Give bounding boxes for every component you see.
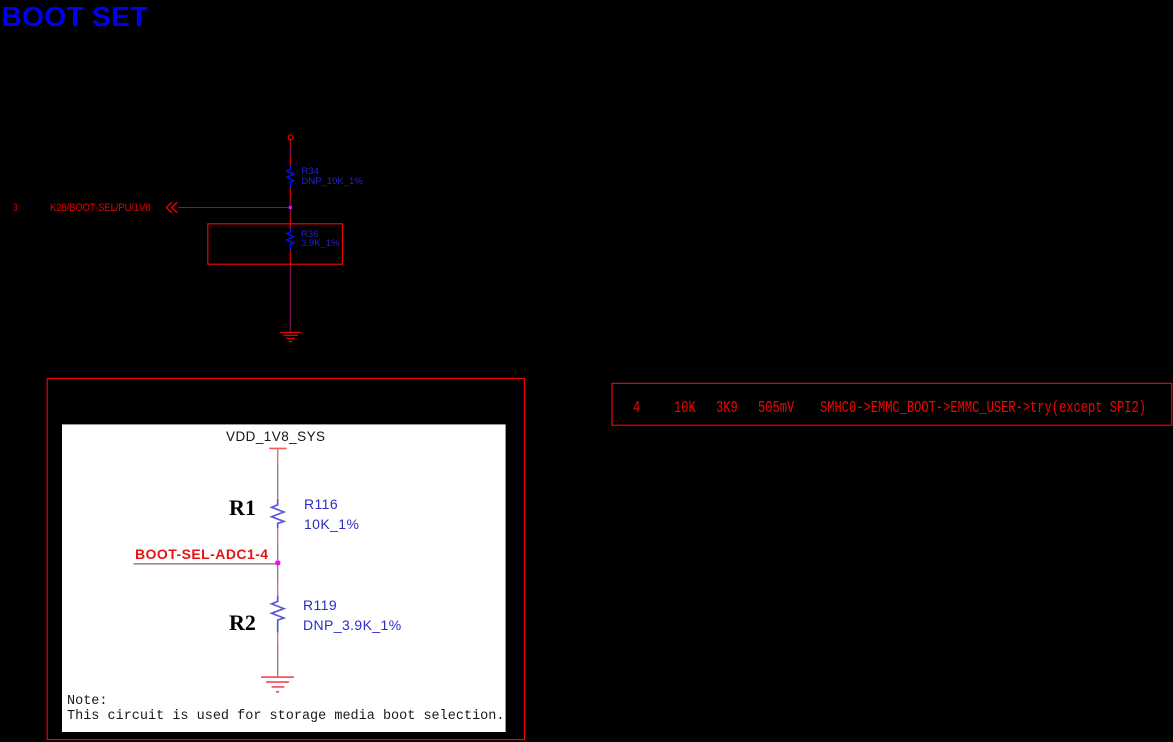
- wire red circle to R34 upper: [289, 140, 291, 146]
- resistor R2: [272, 596, 284, 633]
- wire net K28/BOOT-SEL horizontal: [178, 207, 289, 209]
- wire red below R36: [289, 249, 291, 264]
- annotation table box right: [612, 383, 1172, 425]
- label R36 value 3.9K_1%: [301, 239, 340, 249]
- resistor R36: [287, 229, 294, 250]
- wire purple above junction: [289, 200, 291, 206]
- table cell boot order: [820, 400, 1146, 417]
- label VDD_1V8_SYS: [226, 430, 326, 444]
- power symbol VDD_1V8_SYS bar: [269, 447, 286, 449]
- wire pink below R1: [277, 528, 279, 545]
- resistor R1: [272, 499, 284, 528]
- wire BOOT-SEL-ADC1-4 horizontal underline: [134, 563, 278, 565]
- wire pink below power bar: [277, 448, 279, 463]
- wire red into R34: [289, 156, 291, 166]
- label R36 refdes: [301, 230, 318, 240]
- ground GND top circuit: [280, 332, 301, 341]
- resistor R34: [287, 166, 294, 187]
- net label BOOT-SEL-ADC1-4: [135, 547, 269, 561]
- wire red into R36: [289, 215, 291, 229]
- highlight box around R36: [208, 224, 343, 264]
- note heading: [67, 695, 108, 709]
- label R34 value DNP_10K_1%: [302, 177, 363, 187]
- label R116: [304, 497, 338, 511]
- label DNP_3.9K_1%: [303, 618, 402, 632]
- label 10K_1%: [304, 517, 359, 531]
- wire purple below junction: [289, 209, 291, 215]
- table cell 10K: [674, 400, 696, 417]
- label R2 refdes big: [229, 612, 256, 634]
- wire pink into R1: [277, 498, 279, 500]
- wire gray-purple above junction: [277, 545, 279, 560]
- table cell 3K9: [716, 400, 738, 417]
- table cell 4: [633, 400, 640, 417]
- pin connector circle (top of R34 net): [288, 135, 293, 140]
- label R34 refdes: [302, 167, 319, 177]
- label page ref 3: [13, 203, 18, 214]
- wire pink into R2: [277, 581, 279, 596]
- wire pink below R2: [277, 633, 279, 644]
- table cell 505mV: [758, 400, 794, 417]
- label R1 refdes big: [229, 497, 256, 519]
- node junction K28/BOOT-SEL: [289, 206, 292, 209]
- wire purple segment upper: [289, 146, 291, 157]
- net label K28/BOOT-SEL/PU/1V8: [50, 203, 150, 214]
- ground GND panel: [261, 677, 294, 692]
- title BOOT SET: [2, 3, 148, 31]
- wire gray-purple segment: [277, 464, 279, 498]
- white inset panel: [62, 424, 506, 732]
- highlight box bottom-left (note frame): [47, 378, 524, 739]
- wire gray-purple below junction: [277, 566, 279, 581]
- wire red below R34: [289, 187, 291, 200]
- note body text: [67, 710, 504, 724]
- wire purple to ground: [289, 264, 291, 332]
- label R119: [303, 598, 337, 612]
- node junction BOOT-SEL-ADC1-4: [275, 560, 280, 565]
- off-page connector chevron: [166, 202, 177, 213]
- wire gray-purple to panel ground: [277, 644, 279, 677]
